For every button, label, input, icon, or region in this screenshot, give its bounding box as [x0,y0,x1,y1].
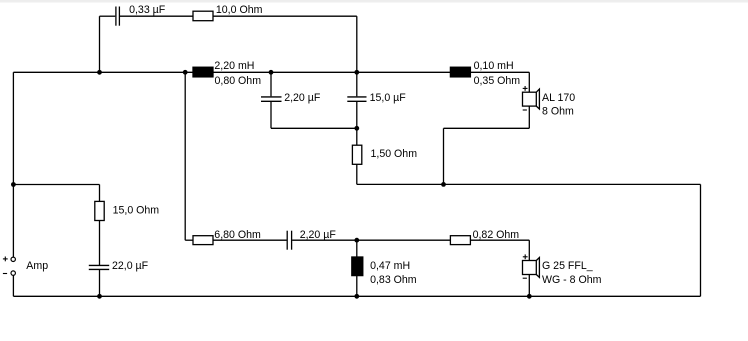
node row4 x443 [441,182,446,187]
svg-text:15,0 µF: 15,0 µF [370,92,407,104]
wire C5 to node [292,239,450,241]
speaker U2 G25 box [523,261,537,275]
wire row4 right [357,183,701,185]
wire AL170 bottom lead [528,106,530,128]
speaker U1 AL 170 box [523,92,537,106]
resistor R 1,50 Ohm [352,145,361,164]
svg-text:0,33 µF: 0,33 µF [129,4,166,16]
inductor L2 0,10 mH [450,67,470,77]
wire mid row left [13,71,193,73]
capacitor C4 plates [89,264,109,266]
svg-text:0,82 Ohm: 0,82 Ohm [473,229,520,241]
speaker U1 horn [536,89,539,109]
svg-text:0,10 mH: 0,10 mH [474,60,514,72]
resistor R 1,50 Ohm bottom lead [356,164,358,184]
wire top branch right drop [356,16,358,72]
capacitor C3 15,0 uF top lead [356,72,358,96]
node rail x529 [527,294,532,299]
wire AL170 top lead [528,72,530,92]
amp minus sign [3,273,7,275]
svg-text:8 Ohm: 8 Ohm [542,105,574,117]
capacitor C2 plates [261,96,282,98]
svg-text:15,0 Ohm: 15,0 Ohm [113,205,160,217]
capacitor C3 plates [347,96,366,98]
svg-text:WG - 8 Ohm: WG - 8 Ohm [542,274,602,286]
node row2 x271 [269,70,274,75]
wire R680 to C5 [213,239,287,241]
svg-text:G 25 FFL_: G 25 FFL_ [542,260,594,272]
svg-text:AL 170: AL 170 [542,92,575,104]
node row2 x185 [183,70,188,75]
resistor R 15,0 Ohm [95,201,104,220]
capacitor C5 2,20 uF plates [286,231,288,250]
resistor R 1,50 Ohm top lead [356,128,358,145]
wire bottom rail [13,295,700,297]
wire row4 left [13,184,99,186]
svg-text:0,83 Ohm: 0,83 Ohm [370,274,417,286]
wire R082 to corner [470,239,529,241]
svg-text:22,0 µF: 22,0 µF [112,260,149,272]
svg-text:6,80 Ohm: 6,80 Ohm [214,229,261,241]
capacitor C4 22,0 uF top lead [99,221,101,266]
capacitor C4 bottom lead [99,270,101,296]
terminal plus circle [11,257,15,261]
wire C1 to R10 [120,15,193,17]
resistor R 10,0 Ohm [193,11,213,21]
resistor R 0,82 Ohm [450,236,470,245]
node rail x99 [97,294,102,299]
inductor L3 bottom lead [356,276,358,297]
svg-text:0,80 Ohm: 0,80 Ohm [215,75,262,87]
wire top branch left [100,15,116,17]
G25 plus sign [523,256,528,258]
svg-text:10,0 Ohm: 10,0 Ohm [216,4,263,16]
wire right rail drop [700,184,702,296]
node rail x357 [354,294,359,299]
wire row5 to R680 [185,239,193,241]
node row2 x357 [354,70,359,75]
inductor L3 0,47 mH [352,257,363,276]
node row2 x99 [97,70,102,75]
capacitor C2 bottom lead [270,102,272,128]
svg-text:1,50 Ohm: 1,50 Ohm [371,148,418,160]
wire amp minus lead [12,275,14,296]
resistor R 15,0 Ohm top lead [99,185,101,202]
wire G25 top lead [528,240,530,260]
svg-text:0,35 Ohm: 0,35 Ohm [474,75,521,87]
inductor L3 0,47 mH top lead [356,240,358,257]
wire R10 to corner [213,15,357,17]
capacitor C1 0,33 uF plates [115,7,117,26]
AL170 plus sign [523,87,528,89]
svg-text:Amp: Amp [26,260,48,272]
svg-text:0,47 mH: 0,47 mH [370,260,410,272]
AL170 minus sign [523,109,527,111]
wire mid column drop [184,72,186,240]
svg-text:2,20 mH: 2,20 mH [214,60,254,72]
speaker U2 horn [536,258,539,278]
wire mid row center [213,71,450,73]
amp plus sign [3,258,8,260]
resistor R 6,80 Ohm [193,236,213,245]
wire top branch left drop [99,16,101,72]
capacitor C2 2,20 uF top lead [270,72,272,96]
svg-text:2,20 µF: 2,20 µF [284,92,321,104]
wire AL170 return horizontal [444,127,530,129]
wire AL170 return drop [443,128,445,184]
amp terminals [11,257,15,275]
wire left rail [12,72,14,257]
wire mid row right [470,71,529,73]
inductor L1 2,20 mH [193,67,213,77]
G25 minus sign [523,277,527,279]
wire C2 bottom to node [271,127,357,129]
window top edge line [0,0,748,2]
node row4 x13 [11,182,16,187]
node row5 x357 [354,238,359,243]
terminal minus circle [11,271,15,275]
capacitor C3 bottom lead [356,102,358,128]
node row3 x357 [354,126,359,131]
wire G25 bottom lead [528,275,530,297]
svg-text:2,20 µF: 2,20 µF [300,229,337,241]
